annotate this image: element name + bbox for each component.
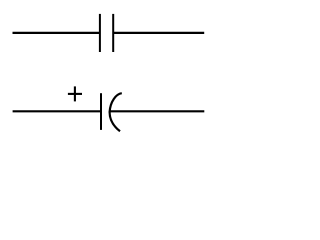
wire: bottom-right lead of C2 [110,110,205,112]
polarity label + for C2 [68,86,82,101]
capacitor C2 (polarized) left plate [100,93,102,130]
wire: bottom-left lead of C2 [13,110,101,112]
wire: top-right lead of C1 [113,32,204,34]
capacitor C1 right plate [112,14,114,52]
capacitor C1 left plate [99,14,101,52]
wire: top-left lead of C1 [13,32,100,34]
capacitor C2 curved plate [110,93,122,131]
